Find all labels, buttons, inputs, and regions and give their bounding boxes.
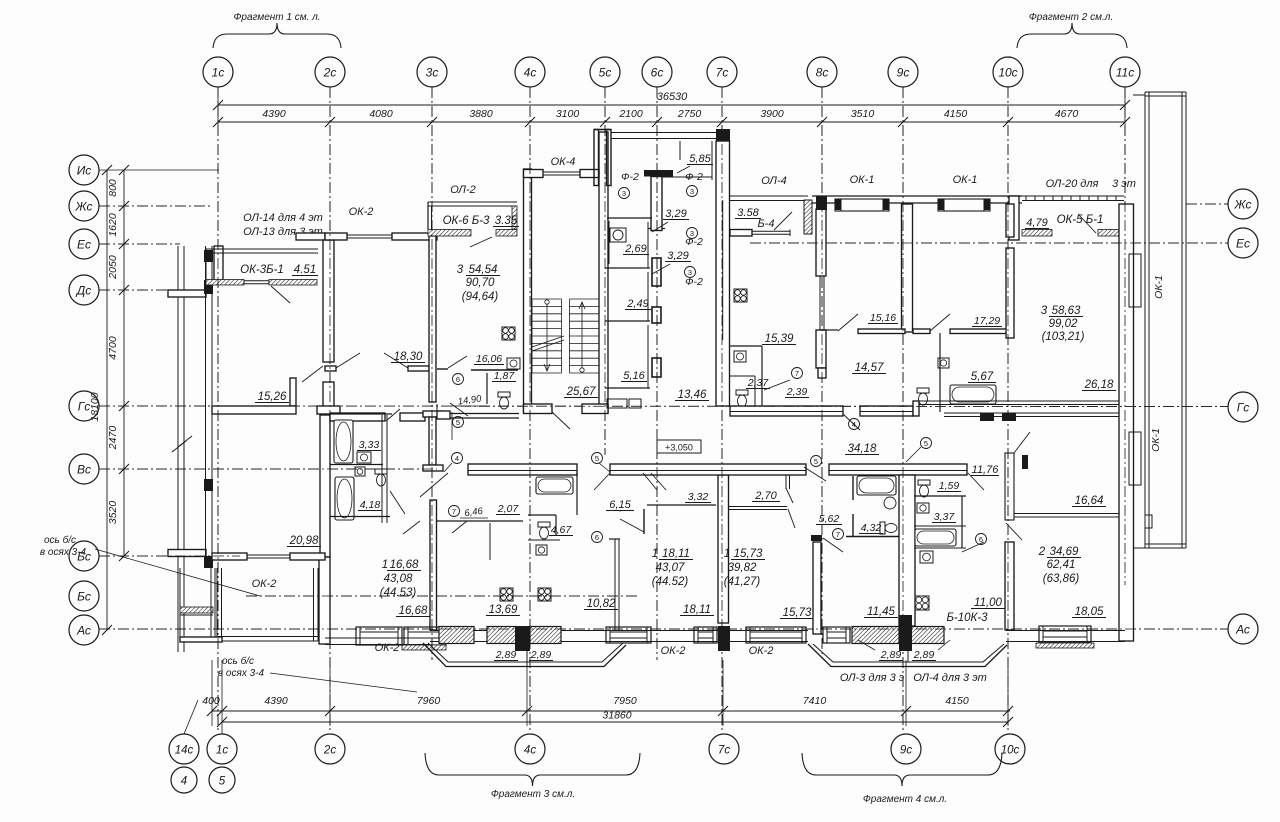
vertical axis dash-dot lines [218, 87, 1125, 733]
svg-text:3,37: 3,37 [934, 511, 956, 523]
bay window left (erker) [423, 643, 626, 667]
top-left exterior wall with window OK-3B-1 [206, 280, 244, 286]
svg-text:18,05: 18,05 [1075, 606, 1104, 618]
svg-text:ОК-3Б-1: ОК-3Б-1 [240, 264, 284, 276]
svg-text:6: 6 [595, 533, 599, 542]
stair top wall with window OK-4 [524, 170, 544, 178]
svg-text:(44.53): (44.53) [380, 587, 417, 599]
svg-text:4: 4 [455, 454, 459, 463]
svg-text:Фрагмент 1 см. л.: Фрагмент 1 см. л. [233, 12, 320, 23]
svg-text:3: 3 [1041, 305, 1048, 317]
svg-text:2,89: 2,89 [495, 649, 517, 661]
svg-text:9с: 9с [900, 745, 912, 757]
top-left corner room 5.85 extension 6s-7s [679, 141, 681, 160]
partition right of baths [381, 415, 383, 523]
svg-text:2,49: 2,49 [626, 298, 648, 310]
vent T-wall at 6s [644, 170, 673, 177]
svg-text:1с: 1с [216, 745, 228, 757]
svg-text:4: 4 [181, 776, 187, 788]
svg-text:+3,050: +3,050 [665, 443, 693, 453]
axis circles left column [69, 155, 99, 645]
svg-text:Б-10К-3: Б-10К-3 [946, 612, 988, 624]
inner wall x815 [816, 196, 827, 209]
corridor lines 14.90 [451, 412, 453, 440]
svg-text:2,70: 2,70 [754, 490, 777, 502]
svg-text:16,06: 16,06 [476, 353, 502, 365]
svg-text:ОЛ-4 для 3 эт: ОЛ-4 для 3 эт [913, 672, 987, 684]
bath 3.33 [334, 420, 353, 463]
svg-text:54,54: 54,54 [469, 264, 498, 276]
svg-text:1,87: 1,87 [494, 370, 516, 382]
stairwell right wall [599, 132, 608, 413]
svg-text:ОЛ-14 для 4 эт: ОЛ-14 для 4 эт [243, 212, 323, 224]
svg-text:5: 5 [219, 776, 226, 788]
svg-text:ОЛ-3 для 3 э: ОЛ-3 для 3 э [840, 672, 905, 684]
balcony glazing OL-4 [730, 195, 808, 197]
bottom dimension chain [202, 660, 1013, 726]
svg-text:Ас: Ас [76, 624, 91, 638]
pier feet at walls [515, 626, 530, 651]
svg-text:4390: 4390 [262, 108, 286, 120]
window OK-3 B-2 bottom [404, 627, 446, 645]
door swing balcony left [271, 286, 290, 303]
wall axis 2s vertical [323, 240, 334, 362]
svg-text:5с: 5с [599, 66, 612, 80]
svg-text:3: 3 [690, 187, 694, 196]
svg-text:Дс: Дс [75, 284, 91, 298]
svg-text:4150: 4150 [945, 695, 969, 707]
bottom dimension total 31860 [217, 710, 1013, 728]
svg-text:5,16: 5,16 [623, 370, 645, 382]
svg-text:Ес: Ес [1236, 237, 1250, 251]
svg-text:6с: 6с [651, 66, 664, 80]
svg-text:800: 800 [107, 179, 119, 197]
svg-text:4с: 4с [524, 66, 537, 80]
svg-text:2: 2 [1038, 546, 1046, 558]
kitchen column right of 9s [918, 480, 930, 485]
svg-text:26,18: 26,18 [1084, 379, 1114, 391]
svg-text:90,70: 90,70 [466, 277, 495, 289]
svg-text:ОК-6 Б-3: ОК-6 Б-3 [443, 215, 490, 227]
svg-text:ОЛ-20 для: ОЛ-20 для [1046, 178, 1099, 190]
svg-text:ОЛ-2: ОЛ-2 [450, 184, 476, 196]
svg-text:5: 5 [456, 418, 460, 427]
pillar right of balcony OL-4 [804, 200, 812, 234]
pillar 7s top [716, 129, 730, 142]
svg-text:1: 1 [724, 548, 730, 560]
svg-text:ОК-5 Б-1: ОК-5 Б-1 [1057, 214, 1104, 226]
room 6.15 label placed above [592, 532, 603, 543]
svg-text:3880: 3880 [469, 108, 493, 120]
svg-text:18,11: 18,11 [662, 548, 690, 560]
wall x490 kitchen [489, 523, 491, 560]
svg-text:7: 7 [836, 530, 840, 539]
svg-text:Ес: Ес [77, 238, 91, 252]
bottom wall of room 20.98 with window [212, 553, 247, 560]
svg-text:13,69: 13,69 [489, 604, 518, 616]
svg-text:3: 3 [457, 264, 464, 276]
svg-text:3520: 3520 [107, 501, 119, 525]
svg-text:2,89: 2,89 [880, 649, 902, 661]
window OK-2 bottom left [356, 627, 402, 645]
svg-text:ОК-4: ОК-4 [551, 156, 576, 168]
svg-text:(41,27): (41,27) [724, 576, 761, 588]
wall axis 3s vertical [429, 236, 436, 402]
room 18.11 left wall [614, 539, 616, 630]
svg-text:18,30: 18,30 [394, 351, 423, 363]
wall right of bath center [576, 473, 578, 515]
svg-text:3,29: 3,29 [665, 208, 686, 220]
labels small top of ap.1 [449, 506, 460, 517]
bay window right [808, 644, 1007, 667]
kitchen 13.69 [500, 588, 513, 601]
svg-text:1: 1 [382, 559, 388, 571]
svg-text:2,39: 2,39 [786, 386, 808, 398]
svg-text:10,82: 10,82 [587, 598, 616, 610]
top dimension chain [213, 108, 1130, 127]
svg-text:3.35: 3.35 [495, 215, 518, 227]
svg-text:(103,21): (103,21) [1042, 331, 1085, 343]
bottom wall left section (2s-3s) [325, 637, 430, 639]
svg-text:4,18: 4,18 [360, 499, 381, 511]
svg-text:3 эт: 3 эт [1112, 178, 1136, 190]
top wall with window OK-2 (2s-3s) [325, 233, 347, 240]
svg-text:3,29: 3,29 [667, 250, 688, 262]
svg-text:1620: 1620 [107, 213, 119, 237]
balcony OK-2 bottom left [216, 568, 218, 641]
svg-text:10с: 10с [998, 66, 1017, 80]
svg-text:ОК-2: ОК-2 [252, 578, 277, 590]
axis circles bottom row [169, 700, 1025, 793]
stair break line [532, 336, 564, 347]
svg-text:3с: 3с [426, 66, 439, 80]
svg-text:13,46: 13,46 [678, 389, 707, 401]
svg-text:Ис: Ис [77, 164, 92, 178]
svg-text:15,16: 15,16 [870, 312, 896, 324]
svg-text:2,07: 2,07 [497, 503, 520, 515]
right exterior wall [1119, 204, 1134, 641]
wall axis 7s lower [718, 475, 729, 623]
svg-text:Фрагмент 3 см.л.: Фрагмент 3 см.л. [491, 789, 575, 800]
svg-text:4.51: 4.51 [294, 264, 316, 276]
svg-text:Ф-2: Ф-2 [621, 171, 639, 183]
top wall 5s-7s [611, 132, 716, 134]
svg-text:2,89: 2,89 [530, 649, 552, 661]
svg-text:15,73: 15,73 [783, 607, 812, 619]
hall cabinets [607, 399, 627, 408]
pier 10s top [1009, 196, 1019, 240]
window right section [1039, 626, 1091, 642]
wall with window OK-5 B-1 [1022, 230, 1052, 237]
svg-text:3900: 3900 [760, 108, 784, 120]
svg-text:4с: 4с [524, 745, 536, 757]
svg-text:10с: 10с [1001, 745, 1020, 757]
svg-text:3510: 3510 [851, 108, 875, 120]
svg-text:99,02: 99,02 [1049, 318, 1078, 330]
svg-text:Ас: Ас [1235, 623, 1250, 637]
svg-text:15,73: 15,73 [734, 548, 763, 560]
svg-text:ОК-2: ОК-2 [749, 645, 774, 657]
left dimension total 18100 [89, 165, 112, 635]
svg-text:2,37: 2,37 [747, 377, 770, 389]
stair arrows [545, 300, 549, 304]
svg-text:в осях 3-4: в осях 3-4 [40, 547, 87, 558]
svg-text:11с: 11с [1116, 66, 1134, 80]
svg-text:4,79: 4,79 [1026, 217, 1047, 229]
svg-text:14с: 14с [175, 745, 194, 757]
wall axis 7s upper [716, 141, 730, 406]
window OK-1 recess 2 [938, 199, 990, 211]
svg-text:Фрагмент 4 см.л.: Фрагмент 4 см.л. [863, 794, 947, 805]
bath partitions 15.39 [730, 345, 762, 347]
wall break symbol left [172, 436, 192, 452]
small rooms 2.69/2.49/5.16 walls [607, 217, 652, 219]
svg-text:(94,64): (94,64) [462, 291, 499, 303]
svg-text:2,69: 2,69 [624, 243, 646, 255]
svg-text:14,57: 14,57 [855, 362, 884, 374]
svg-text:7с: 7с [718, 745, 730, 757]
wall under bath 3.33 [330, 464, 383, 466]
hatched windows flanking 4s [439, 627, 474, 644]
wall axis 10s lower: door frame [1005, 453, 1014, 520]
svg-text:4390: 4390 [264, 695, 288, 707]
svg-text:2050: 2050 [107, 255, 119, 280]
svg-text:2с: 2с [323, 745, 336, 757]
wall with window OK-6 [428, 230, 471, 237]
svg-text:36530: 36530 [657, 91, 688, 103]
left wall stub at Bs [168, 550, 206, 557]
window recess right wall mid [1129, 432, 1141, 485]
right balcony OK-1 strip [1144, 92, 1146, 548]
svg-text:16,68: 16,68 [399, 605, 428, 617]
divider wall y330 [822, 329, 838, 331]
svg-text:39,82: 39,82 [728, 562, 757, 574]
stair flights [532, 299, 599, 373]
svg-text:3100: 3100 [556, 108, 580, 120]
svg-text:5: 5 [595, 454, 599, 463]
svg-text:6,15: 6,15 [609, 499, 631, 511]
top-left balcony glazing OL-13/14 [206, 248, 318, 250]
svg-text:4150: 4150 [944, 108, 968, 120]
svg-text:ОК-2: ОК-2 [349, 206, 374, 218]
svg-text:1,59: 1,59 [939, 480, 960, 492]
svg-text:ОК-2: ОК-2 [375, 642, 400, 654]
svg-text:3,33: 3,33 [359, 439, 380, 451]
svg-text:ОЛ-4: ОЛ-4 [761, 175, 787, 187]
bath 5.67 [939, 333, 941, 412]
partitions bath center [528, 514, 556, 516]
svg-text:ОК-2: ОК-2 [661, 645, 686, 657]
svg-text:43,07: 43,07 [656, 562, 685, 574]
hatched windows flanking 9s [823, 627, 850, 643]
svg-text:Б-4: Б-4 [758, 218, 775, 230]
axis circles top row [203, 57, 1140, 87]
corridor bottom wall y464 [468, 464, 577, 475]
svg-text:34,18: 34,18 [848, 443, 877, 455]
svg-text:5: 5 [814, 457, 818, 466]
svg-text:11,00: 11,00 [974, 597, 1003, 609]
axis circles right column [1228, 189, 1258, 644]
svg-text:Ф-2: Ф-2 [685, 171, 703, 183]
svg-text:25,67: 25,67 [566, 386, 596, 398]
kitchen fixtures apartment 3 [502, 327, 515, 340]
shaft tower at axis 5s [594, 130, 599, 186]
svg-text:16,68: 16,68 [390, 559, 419, 571]
bath 4.18 [335, 477, 354, 520]
stair bottom wall [524, 404, 553, 414]
left dimension chain [107, 165, 129, 561]
svg-text:62,41: 62,41 [1047, 559, 1076, 571]
balcony OL-20 glazing [1022, 195, 1124, 197]
svg-text:7: 7 [795, 369, 799, 378]
svg-text:11,76: 11,76 [972, 464, 1000, 476]
svg-text:6: 6 [456, 375, 460, 384]
svg-text:7: 7 [452, 507, 456, 516]
wall axis 9s lower [899, 475, 915, 626]
svg-text:Гс: Гс [1237, 401, 1250, 415]
wall axis 10s upper [1006, 204, 1014, 237]
svg-text:4,67: 4,67 [551, 524, 573, 536]
svg-text:4080: 4080 [369, 108, 393, 120]
kitchen 15.39 fixtures [734, 289, 747, 302]
svg-text:в осях 3-4: в осях 3-4 [218, 668, 265, 679]
svg-text:34,69: 34,69 [1050, 546, 1079, 558]
stairwell left wall [524, 169, 532, 412]
svg-text:3,32: 3,32 [688, 491, 709, 503]
window recess right wall upper [1129, 254, 1141, 307]
wall x810 lower [813, 542, 821, 634]
svg-text:58,63: 58,63 [1052, 305, 1081, 317]
svg-text:20,98: 20,98 [289, 535, 319, 547]
svg-text:43,08: 43,08 [384, 573, 413, 585]
svg-text:5: 5 [924, 439, 928, 448]
vent stubs at 6s [652, 258, 661, 286]
svg-text:2с: 2с [323, 66, 337, 80]
balcony glazing OL-2 [428, 201, 517, 203]
bottom wall of upper right apartment [913, 400, 1119, 402]
svg-text:(63,86): (63,86) [1043, 573, 1080, 585]
svg-text:4,32: 4,32 [861, 522, 882, 534]
corridor top wall y406 [730, 406, 843, 416]
room 5.85 [711, 141, 713, 180]
svg-text:ОК-1: ОК-1 [1150, 428, 1162, 452]
svg-text:9с: 9с [897, 66, 910, 80]
+3.050 level mark [657, 440, 701, 453]
corridor door diag right [643, 473, 657, 490]
wall x962 vertical [961, 496, 963, 548]
horizontal axis lines [99, 170, 1228, 629]
room 10.82/4.67/6.15 (4s-7s) [536, 477, 573, 494]
svg-text:17,29: 17,29 [974, 315, 1000, 327]
svg-text:ОК-1: ОК-1 [1153, 275, 1165, 299]
bottom-left annex [179, 568, 181, 637]
svg-text:Фрагмент 2 см.л.: Фрагмент 2 см.л. [1029, 12, 1113, 23]
svg-text:2,89: 2,89 [913, 649, 935, 661]
svg-text:ОК-1: ОК-1 [850, 174, 875, 186]
svg-text:3: 3 [690, 229, 694, 238]
double door room 18.30 [325, 366, 336, 371]
svg-text:ось б/с: ось б/с [44, 534, 76, 546]
svg-text:2470: 2470 [107, 426, 119, 451]
balcony notch [1145, 515, 1152, 528]
svg-text:Вс: Вс [77, 463, 91, 477]
svg-text:11,45: 11,45 [867, 606, 896, 618]
svg-text:Ф-2: Ф-2 [685, 276, 703, 288]
partitions baths 5.62/4.32 [852, 476, 854, 500]
axis 1s pillar top [214, 246, 223, 284]
window OK-1 recess 1 [835, 199, 889, 211]
leader diagonals 2.89 [858, 640, 875, 650]
left exterior wall [205, 246, 207, 568]
svg-text:7с: 7с [716, 66, 729, 80]
svg-text:3: 3 [622, 189, 626, 198]
wall axis 9s upper [902, 204, 913, 332]
bottom band main lines [430, 630, 808, 632]
svg-text:15,26: 15,26 [258, 391, 287, 403]
svg-text:2100: 2100 [618, 108, 643, 120]
svg-text:8с: 8с [816, 66, 829, 80]
svg-text:18100: 18100 [89, 392, 101, 421]
room 15.26 right stub [290, 378, 296, 406]
svg-text:3.58: 3.58 [737, 207, 759, 219]
svg-text:Жс: Жс [1233, 198, 1251, 212]
svg-text:18,11: 18,11 [683, 604, 711, 616]
svg-text:2750: 2750 [677, 108, 702, 120]
svg-text:16,64: 16,64 [1075, 495, 1104, 507]
svg-text:7960: 7960 [417, 695, 441, 707]
partition y520 [437, 520, 523, 522]
svg-text:ОК-1: ОК-1 [953, 174, 978, 186]
svg-text:7950: 7950 [613, 695, 637, 707]
corridor circles [811, 456, 822, 467]
svg-text:ось б/с: ось б/с [222, 655, 254, 667]
svg-text:Жс: Жс [74, 200, 92, 214]
top wall with windows OK-1 [812, 195, 1022, 197]
svg-text:3: 3 [688, 268, 692, 277]
svg-text:7410: 7410 [803, 695, 827, 707]
hall 3.32 walls [647, 504, 716, 506]
svg-text:4700: 4700 [107, 336, 119, 360]
svg-text:5,85: 5,85 [689, 153, 711, 165]
top dimension total 36530 [213, 87, 1130, 128]
wall with window B-4 [730, 230, 752, 237]
svg-text:Бс: Бс [77, 590, 91, 604]
svg-text:31860: 31860 [602, 710, 631, 722]
svg-text:5,67: 5,67 [971, 371, 994, 383]
bath partition apartment 3 [437, 368, 448, 370]
left wall stub at Ds [168, 290, 206, 297]
wall Gs level left apartment [212, 406, 296, 414]
window assemblies center [606, 627, 651, 643]
svg-text:1с: 1с [212, 66, 225, 80]
axis overlay [99, 87, 1228, 733]
svg-text:4670: 4670 [1055, 108, 1079, 120]
level box redraw [657, 440, 701, 453]
svg-text:400: 400 [202, 695, 220, 707]
svg-text:15,39: 15,39 [765, 333, 794, 345]
left outer ledge lines [177, 246, 179, 652]
